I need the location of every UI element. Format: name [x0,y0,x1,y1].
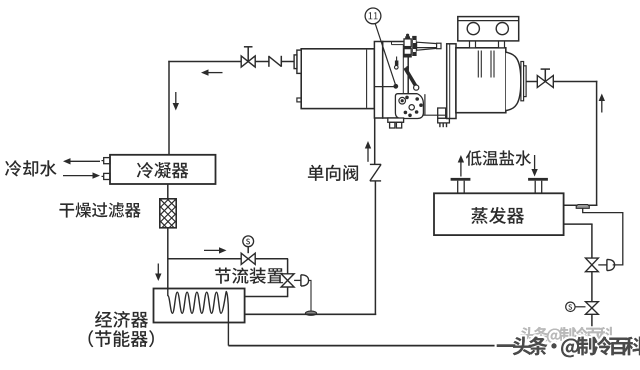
oil separator cylinder [456,48,506,113]
wire into evaporator top [564,204,598,206]
label 低温盐水 [466,150,531,165]
wire between right valves [591,272,593,302]
top platform line [392,44,404,46]
compressor mid block [383,42,409,119]
compressor motor body [301,49,374,109]
mid block inner line [402,45,404,95]
wire vapor riser [374,181,376,315]
flow arrow down liquid line [157,264,159,276]
wire valve to check valve [255,61,269,63]
check valve Z 单向阀 [370,163,381,165]
wire filter to economizer [167,228,169,289]
compressor right foot [438,108,446,118]
label 冷却水 [5,160,57,176]
flow arrow left on discharge line [207,72,223,74]
evaporator label 蒸发器 [471,207,524,224]
wire liquid feed bottom run [228,345,592,347]
compressor left foot [388,118,404,122]
drier filter 干燥过滤器 (hatched) [160,170,176,245]
flange fitting on suction outlet [576,205,589,209]
condenser label 冷凝器 [137,162,189,178]
separator neck top line [413,47,437,49]
separator neck bottom [422,114,446,116]
brine arrow in down [534,155,536,171]
label 经济器 [95,311,148,328]
wire suction downcomer [596,81,598,206]
right end cap dome [506,52,521,110]
main expansion valve [586,258,599,272]
label 单向阀 [308,165,358,181]
cylinder stripe b [490,51,492,78]
cylinder stripe a [477,51,479,78]
wire discharge line to condenser (horizontal) [168,61,241,63]
port circle left [467,23,479,35]
small bolt below gadget [396,57,398,61]
wire condenser to filter [167,184,169,199]
actuator D on main expansion valve [598,264,607,266]
end cap flange ring a [521,62,524,101]
solenoid circle S [566,302,575,311]
wire end cap to suction valve [526,81,537,83]
suction shut-off valve [537,76,553,88]
wire evaporator liquid inlet [564,223,593,225]
port circle right [496,23,508,35]
mid block bolt circle a [395,66,399,70]
compressor injection port wire [375,86,396,88]
wire economizer vapor outlet to riser [245,313,377,315]
callout leader line [375,24,395,85]
wire riser above Z to compressor [374,118,376,164]
lever pivot circle [414,85,419,90]
watermark 一头条@制冷百科 [497,336,640,357]
wire branch to throttle [168,258,241,260]
condenser water fitting bottom [104,173,110,179]
actuator D on economizer valve [294,279,301,281]
bearing flange plate with bolt holes [395,94,423,119]
valve shut-off on discharge line [241,56,255,67]
wire check valve to compressor shaft [281,61,294,63]
wire down to main expansion valve [591,224,593,258]
motor end seam [366,50,368,108]
evaporator 蒸发器 box [434,193,564,235]
label 干燥过滤器 [59,202,140,217]
top flange box with two ports [458,17,519,41]
throttle solenoid valve [241,253,255,264]
flow arrow up suction [601,99,603,113]
motor bottom-left lug [297,98,301,102]
economizer 经济器 box [154,289,245,323]
motor left flange step 2 [294,55,297,69]
unloader solenoid stack on compressor top [403,34,416,58]
label 节流装置 [215,268,283,284]
wire S circle to valve [575,306,585,308]
sensor circle S on throttle [243,236,254,247]
wire throttle to expansion valve [255,258,288,260]
wire down to condenser [168,61,170,156]
cooling water arrow in (right) [63,175,95,177]
brine fitting left [451,178,471,181]
flange plate between sections [447,44,456,119]
top flange box support b [499,41,505,48]
mid block dot b [406,66,409,69]
flow arrow right on branch [204,249,221,251]
wire expansion valve into economizer shell [287,287,289,297]
watermark white halo blob [503,330,640,364]
suction horn to right cap [417,42,437,50]
solenoid valve right [586,302,599,315]
injection port dot [393,84,398,89]
callout text 11 [369,12,378,19]
watermark ghost 头条@制冷百科 [521,327,614,344]
brine arrow out up [460,161,462,177]
callout circle 11 [365,8,381,24]
brine fitting right [528,178,548,181]
flow arrow down to condenser [175,92,177,105]
capillary to bulb [309,280,311,311]
wire solenoid valve down [591,314,593,346]
motor left flange step 1 [297,50,301,73]
compressor mid slab [374,42,382,119]
wire suction valve to riser corner [553,81,597,83]
label （节能器） [89,330,154,347]
check valve (flap) symbol on discharge line [268,56,270,67]
sensing bulb on vapor line [305,311,316,315]
end cap flange ring b [524,66,527,97]
condenser 冷凝器 box [110,155,216,184]
cooling water arrow out (left) [69,160,101,162]
top flange box support a [470,41,476,48]
economizer internal coil + liquid outlet down [168,288,229,345]
economizer expansion valve [281,274,294,287]
lever arm [406,69,416,85]
flow arrow up vapor riser [367,147,369,162]
condenser water fitting top [104,158,110,164]
pilot line from suction fitting [583,208,623,265]
